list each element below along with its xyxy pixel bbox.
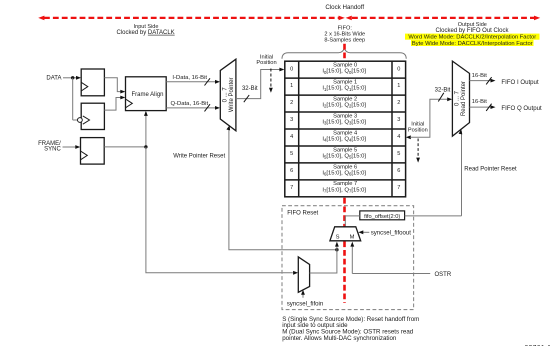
svg-text:0: 0 [290,66,293,72]
svg-text:I0[15:0], Q0[15:0]: I0[15:0], Q0[15:0] [322,69,366,75]
svg-text:Sample 2: Sample 2 [333,96,357,102]
svg-text:8-Samples deep: 8-Samples deep [324,37,365,43]
row 2 Sample 2 [290,96,400,108]
svg-text:Sample 5: Sample 5 [333,147,357,153]
svg-text:Frame Align: Frame Align [131,92,163,98]
svg-text:S: S [336,234,340,240]
wire FF1 to Frame Align [104,78,125,94]
svg-text:2: 2 [290,100,293,106]
note S/M sync source modes [282,316,419,342]
row 0 Sample 0 [290,63,400,75]
svg-text:6: 6 [290,168,293,174]
wire mux output to fifo_offset [345,215,360,217]
label FRAME/SYNC [38,141,61,152]
wire write pointer reset path [226,125,338,251]
svg-text:4: 4 [290,134,293,140]
svg-text:1: 1 [397,83,400,89]
svg-text:I3[15:0], Q3[15:0]: I3[15:0], Q3[15:0] [322,120,366,126]
svg-text:Write Pointer: Write Pointer [229,78,235,113]
svg-text:16-Bit: 16-Bit [472,99,488,105]
svg-text:7: 7 [290,185,293,191]
block Frame Align [126,77,167,111]
label Initial Position (left) [256,54,276,66]
wire fifo_offset to read pointer reset [405,215,462,217]
mux Write Pointer [220,59,236,131]
svg-text:16-Bit: 16-Bit [472,73,488,79]
wire row4 read position pointer [406,88,452,140]
row 1 Sample 1 [290,80,400,92]
svg-text:Position: Position [408,127,428,133]
wire read pointer reset path [459,129,463,216]
box FIFO Reset (dashed) [282,206,414,310]
wire FRAME/SYNC input [63,145,81,149]
svg-text:Byte Wide Mode: DACCLK/Interpo: Byte Wide Mode: DACCLK/Interpolation Fac… [412,41,533,47]
svg-text:32-Bit: 32-Bit [435,88,451,94]
mux Read Pointer [452,61,469,136]
svg-text:Read Pointer Reset: Read Pointer Reset [464,166,517,172]
label Input Side / Clocked by DATACLK [117,24,175,36]
row 4 Sample 4 [290,130,400,142]
note Byte Wide Mode (yellow highlight) [411,40,534,47]
svg-text:M: M [350,234,355,240]
flip-flop FF1 (DATA rising edge) [81,69,104,96]
svg-text:DATA: DATA [46,76,61,82]
wire FIFO Q Output [470,99,543,112]
svg-text:I2[15:0], Q2[15:0]: I2[15:0], Q2[15:0] [322,103,366,109]
svg-text:4: 4 [397,134,400,140]
wire FIFO I Output [470,73,539,86]
svg-text:0: 0 [397,66,400,72]
svg-text:FIFO I Output: FIFO I Output [501,79,539,86]
svg-text:Sample 4: Sample 4 [333,130,357,136]
block fifo_offset(2:0) [360,211,405,220]
wire initial position dashed arrow (left) [269,69,273,93]
wire S/M mux output up [344,216,346,227]
svg-text:0 ... 7: 0 ... 7 [455,90,461,106]
svg-text:Write Pointer Reset: Write Pointer Reset [173,154,225,160]
svg-text:Position: Position [256,60,276,66]
wire fifoin select stub [301,290,305,298]
FIFO table row texts [290,63,400,194]
svg-text:Clock Handoff: Clock Handoff [325,4,364,11]
mux S/M (syncsel_fifout) [330,227,361,241]
svg-text:2: 2 [397,100,400,106]
brace over FIFO [282,48,406,59]
svg-text:Sample 0: Sample 0 [333,63,357,69]
row 5 Sample 5 [290,147,400,159]
svg-text:FIFO Q Output: FIFO Q Output [501,105,542,112]
svg-text:Clocked by FIFO Out Clock: Clocked by FIFO Out Clock [435,28,509,34]
mux syncsel_fifoin [298,257,309,292]
svg-text:Clocked by DATACLK: Clocked by DATACLK [117,30,175,36]
svg-text:OSTR: OSTR [435,272,452,278]
label FIFO heading [324,25,365,43]
svg-text:3: 3 [290,117,293,123]
svg-text:Word Wide Mode: DACCLK/2/Inter: Word Wide Mode: DACCLK/2/Interpolation F… [408,35,536,41]
wire write pointer to FIFO (32-bit) [236,68,285,103]
wire S input [335,242,339,250]
clock handoff red dashed arrow, right half [346,16,541,21]
row 3 Sample 3 [290,113,400,125]
wire M input from OSTR [350,242,354,274]
wire Q-Data [166,101,220,112]
wire DATA input [63,76,81,120]
wire FF2 to Frame Align [104,96,125,111]
svg-text:I4[15:0], Q4[15:0]: I4[15:0], Q4[15:0] [322,136,366,142]
svg-text:0 ... 7: 0 ... 7 [223,87,229,103]
svg-text:32-Bit: 32-Bit [242,86,258,92]
svg-text:Sample 6: Sample 6 [333,164,357,170]
label Initial Position (right) [408,121,428,133]
svg-text:FIFO Reset: FIFO Reset [287,210,318,216]
svg-text:7: 7 [397,185,400,191]
wire I-Data [166,75,220,86]
wire OSTR [352,273,430,275]
svg-text:I5[15:0], Q5[15:0]: I5[15:0], Q5[15:0] [322,153,366,159]
svg-text:fifo_offset(2:0): fifo_offset(2:0) [364,214,400,220]
svg-text:3: 3 [397,117,400,123]
wire FF3 output to junction [104,145,147,148]
svg-text:6: 6 [397,168,400,174]
svg-text:I1[15:0], Q1[15:0]: I1[15:0], Q1[15:0] [322,86,366,92]
svg-text:I7[15:0], Q7[15:0]: I7[15:0], Q7[15:0] [322,187,366,193]
row 6 Sample 6 [290,164,400,176]
flip-flop FF2 (DATA falling edge, bubble) [78,103,105,129]
svg-text:Sample 7: Sample 7 [333,181,357,187]
svg-text:Q-Data, 16-Bit: Q-Data, 16-Bit [170,101,208,107]
note Word Wide Mode (yellow highlight) [405,34,540,41]
svg-text:syncsel_fifoout: syncsel_fifoout [371,229,412,236]
svg-text:5: 5 [397,151,400,157]
svg-text:pointer. Allows Multi-DAC sync: pointer. Allows Multi-DAC synchronizatio… [282,335,397,342]
svg-text:5: 5 [290,151,293,157]
svg-text:Sample 1: Sample 1 [333,80,357,86]
svg-text:Read Pointer: Read Pointer [461,81,467,116]
wire initial position dashed arrow (right) [416,139,420,163]
svg-text:1: 1 [290,83,293,89]
label Output Side / Clocked by FIFO Out Clock [435,22,509,34]
node red handoff line upper segment [343,44,346,61]
svg-text:I-Data, 16-Bit: I-Data, 16-Bit [172,75,207,81]
svg-text:I6[15:0], Q6[15:0]: I6[15:0], Q6[15:0] [322,170,366,176]
node red handoff line lower segment [343,198,346,303]
clock handoff red dashed arrow, left half [38,16,345,21]
flip-flop FF3 (FRAME/SYNC) [81,138,105,165]
svg-text:syncsel_fifoin: syncsel_fifoin [287,301,324,308]
svg-text:SYNC: SYNC [44,146,61,152]
wire sync line down to fifoin mux [146,147,293,273]
block FIFO table [285,61,406,197]
wire fifoin mux output to S junction [310,250,337,273]
svg-text:Sample 3: Sample 3 [333,113,357,119]
wire arrow into syncsel_fifoin mux [293,271,298,275]
label syncsel_fifout with arrow [358,229,411,236]
wire Frame Align clock [144,111,148,147]
row 7 Sample 7 [290,181,400,193]
